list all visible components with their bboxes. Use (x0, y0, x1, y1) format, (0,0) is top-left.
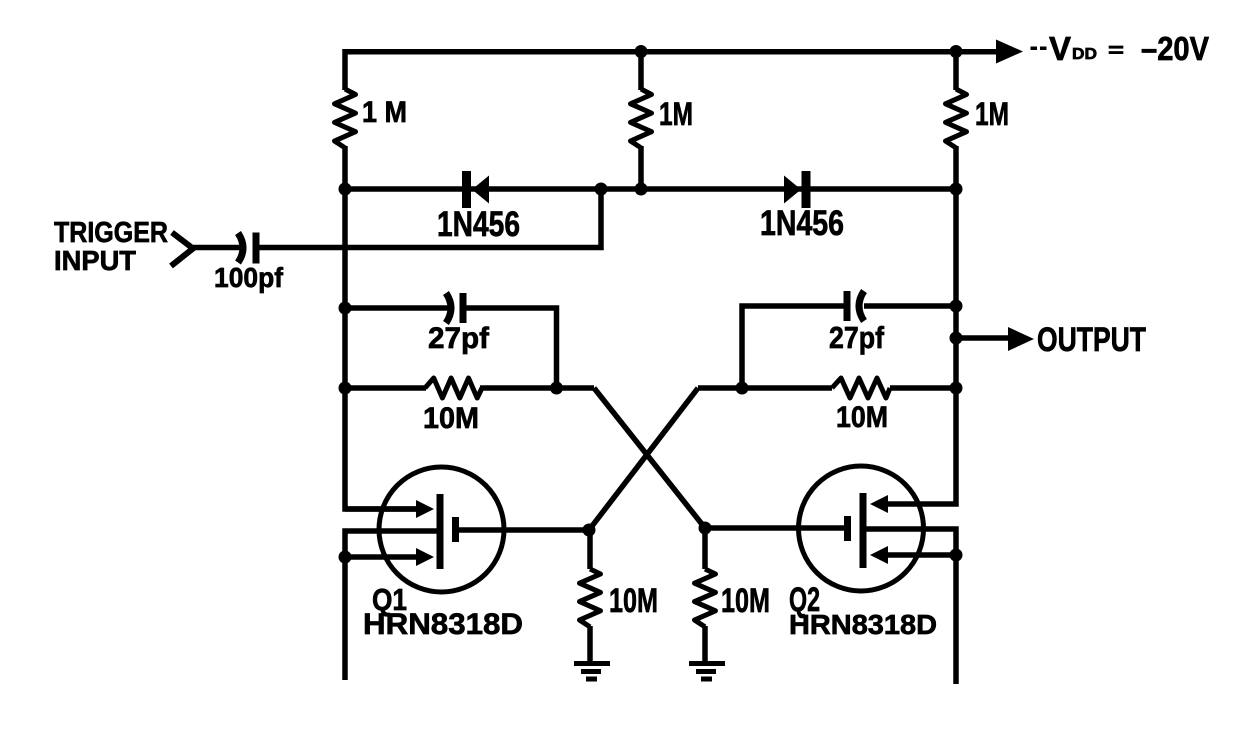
node output (950, 332, 963, 345)
capacitor C1 100pf straight plate (253, 233, 260, 264)
transistor Q2 circle (799, 466, 924, 591)
wire 27pf right to vertical (864, 303, 956, 309)
svg-text:V: V (1049, 30, 1071, 67)
transistor Q1 gate1 arrow (416, 500, 434, 518)
svg-text:10M: 10M (609, 582, 658, 620)
svg-text:HRN8318D: HRN8318D (789, 609, 937, 640)
resistor R7 10M Q2 source (695, 569, 716, 627)
wire right vertical (887, 49, 956, 504)
node 10M row left (339, 382, 352, 395)
svg-text:1N456: 1N456 (437, 205, 520, 244)
node trigger junction (595, 183, 608, 196)
svg-text:=: = (1108, 40, 1124, 62)
resistor R2 1M middle (631, 89, 652, 148)
wire 10M right row (698, 385, 956, 391)
svg-text:100pf: 100pf (214, 262, 284, 293)
diode D1 1N456 triangle (472, 176, 489, 204)
transistor Q1 channel bar (437, 494, 444, 569)
wire Q1 gate2 (345, 554, 419, 560)
svg-text:1M: 1M (659, 96, 693, 132)
ground Q1 source (574, 664, 610, 680)
diode D2 1N456 bar (802, 171, 811, 208)
wire left vertical (345, 49, 419, 509)
svg-text:27pf: 27pf (829, 320, 885, 355)
capacitor C3 27pf right straight plate (844, 291, 851, 321)
node Q2 drain junction (699, 522, 712, 535)
node diode row right (950, 183, 963, 196)
wire 27pf left row (345, 305, 448, 311)
svg-text:10M: 10M (423, 402, 479, 435)
svg-text:10M: 10M (721, 582, 770, 620)
transistor Q1 circle (379, 467, 504, 592)
capacitor C1 100pf curved plate (238, 233, 243, 263)
wire diode row (345, 186, 956, 192)
ground Q2 source (689, 664, 725, 680)
diode D2 1N456 triangle (784, 176, 801, 204)
transistor Q2 channel bar (860, 493, 867, 568)
wire middle vertical (638, 51, 644, 189)
node 10M row left-right end (550, 382, 563, 395)
transistor Q2 substrate bar (844, 516, 851, 541)
wire Q2 gate2 (887, 552, 956, 558)
svg-text:1M: 1M (975, 96, 1009, 132)
node 27pf right (950, 300, 963, 313)
wire trigger input left (193, 245, 240, 251)
resistor R3 1M right (946, 89, 967, 148)
wire top rail (345, 49, 998, 55)
transistor Q2 gate2 arrow (870, 546, 888, 564)
node Q1 drain junction (583, 524, 596, 537)
input chevron (171, 233, 193, 267)
node Q1 gate2 (339, 551, 352, 564)
wire 27pf right branch (742, 306, 845, 388)
capacitor C2 27pf left curved plate (446, 293, 451, 323)
wire 10M left row (345, 385, 594, 391)
transistor Q1 substrate bar (452, 517, 459, 542)
node Q2 gate2 (950, 549, 963, 562)
wire trigger input right (259, 189, 601, 248)
label VDD (1031, 47, 1038, 51)
node diode row middle (635, 183, 648, 196)
wire Q2 source to lower-right vertical (863, 529, 956, 684)
wire cross-coupling diagonal B (589, 388, 698, 530)
wire Q1 source resistor leg (587, 530, 593, 661)
svg-text:27pf: 27pf (428, 322, 490, 355)
wire Q2 drain (705, 525, 844, 531)
wire Q2 source resistor leg (702, 528, 708, 661)
svg-text:1 M: 1 M (362, 96, 407, 129)
resistor R4 10M left horizontal (425, 378, 482, 398)
diode D1 1N456 bar (462, 171, 471, 208)
svg-text:INPUT: INPUT (54, 245, 136, 276)
arrow VDD (996, 40, 1023, 64)
svg-text:HRN8318D: HRN8318D (363, 608, 523, 641)
arrow OUTPUT (1008, 327, 1034, 351)
capacitor C2 27pf left straight plate (460, 293, 467, 323)
node 27pf left (339, 302, 352, 315)
svg-text:1N456: 1N456 (760, 204, 844, 243)
node top middle (635, 45, 648, 58)
wire Q1 source to lower-left vertical (345, 531, 437, 680)
node 10M row right-left end (736, 382, 749, 395)
wire Q1 gate1 (345, 506, 419, 512)
wire 27pf left to 10M row (464, 308, 557, 388)
transistor Q2 gate1 arrow (870, 495, 888, 513)
transistor Q1 gate2 arrow (416, 548, 434, 566)
svg-text:10M: 10M (836, 401, 888, 434)
svg-text:OUTPUT: OUTPUT (1037, 321, 1146, 359)
resistor R6 10M Q1 source (580, 569, 601, 627)
node top right (950, 45, 963, 58)
svg-text:–20V: –20V (1141, 30, 1209, 67)
capacitor C3 27pf right curved plate (859, 291, 864, 321)
resistor R1 1M left (335, 89, 356, 148)
wire Q1 drain (459, 527, 589, 533)
node 10M row right (950, 382, 963, 395)
node diode row left (339, 183, 352, 196)
wire cross-coupling diagonal A (594, 388, 705, 528)
resistor R5 10M right horizontal (832, 378, 890, 398)
svg-text:DD: DD (1072, 46, 1097, 63)
wire output (956, 335, 1012, 341)
